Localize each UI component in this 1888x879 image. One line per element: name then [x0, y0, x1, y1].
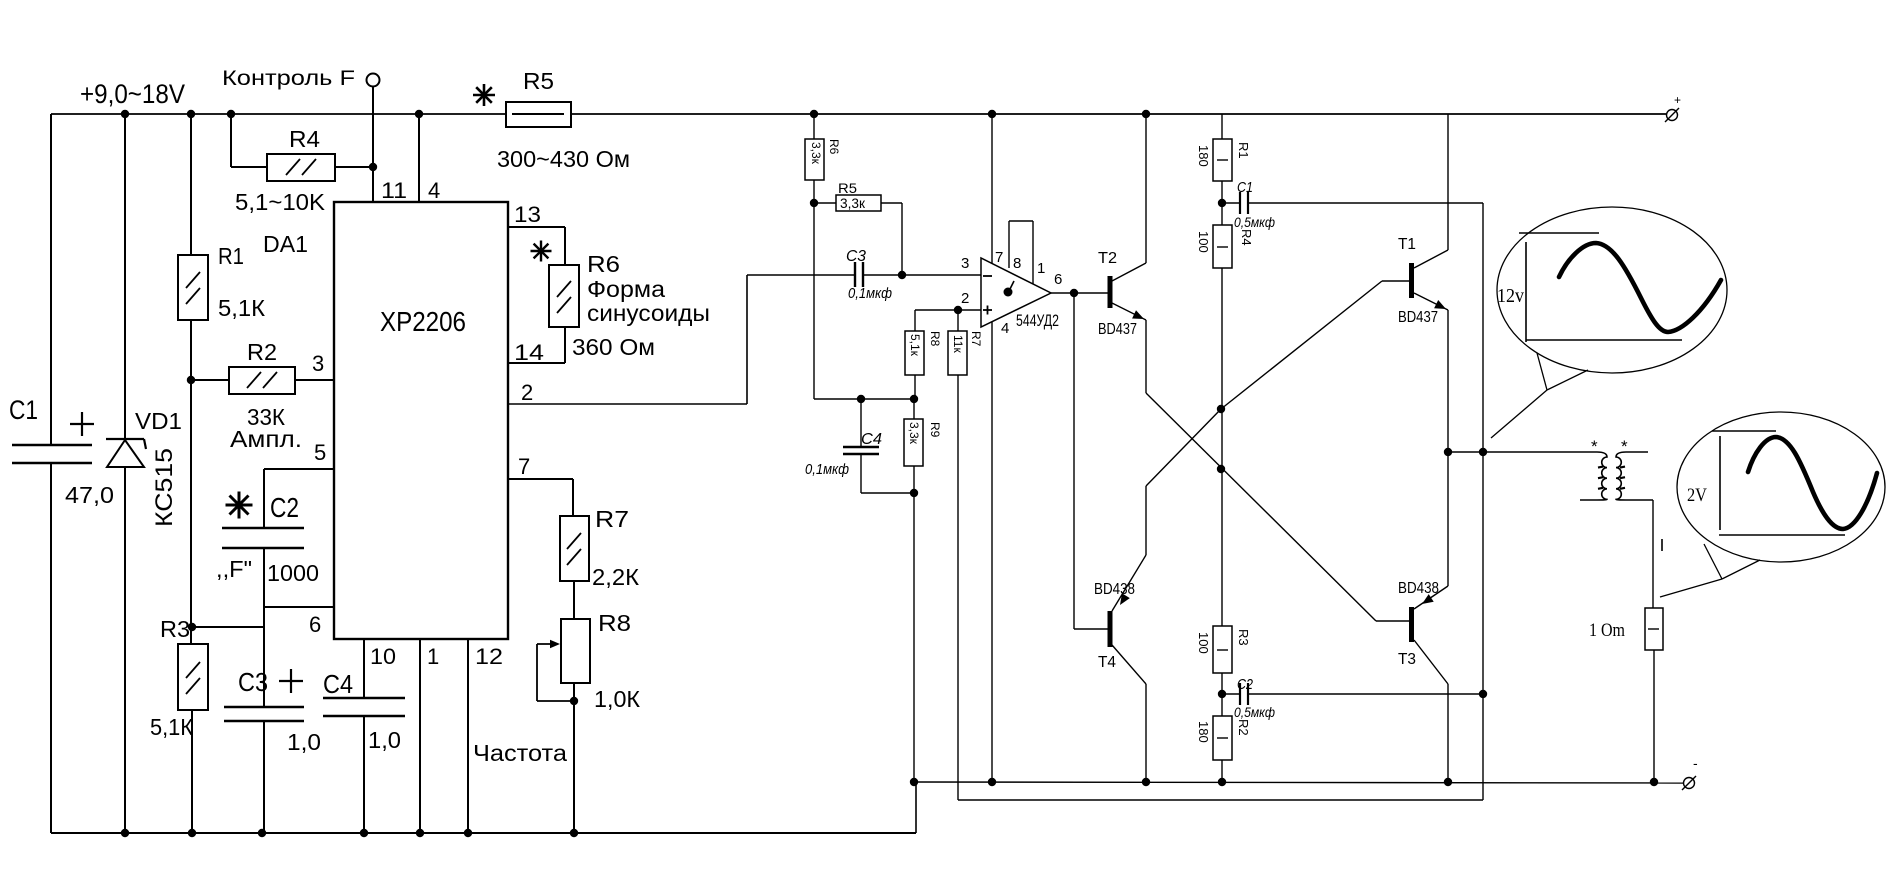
wire T4 base branch: [1074, 293, 1108, 629]
junction dot gnd/R2 ladder: [1218, 778, 1226, 786]
svg-text:8: 8: [1013, 255, 1021, 272]
svg-text:5,1~10K: 5,1~10K: [235, 189, 326, 215]
node label +9,0~18V: [80, 79, 185, 109]
svg-text:7: 7: [518, 454, 530, 479]
wire node399 horizontal: [814, 398, 914, 400]
svg-text:544УД2: 544УД2: [1016, 311, 1059, 330]
svg-text:1,0: 1,0: [287, 729, 321, 755]
junction dot R8 wiper: [570, 697, 578, 705]
junction dot ladder/T3-base diagonal: [1217, 465, 1225, 473]
capacitor C2 0,5mkf: [1222, 676, 1275, 720]
junction dot gnd/C3cap: [258, 829, 266, 837]
svg-text:R6: R6: [827, 139, 841, 155]
svg-text:12v: 12v: [1497, 285, 1524, 307]
wire R8b bottom lead: [914, 375, 916, 399]
wire R2 left lead: [191, 379, 229, 381]
pin 5 label: [314, 440, 326, 465]
svg-text:1,0: 1,0: [368, 727, 401, 753]
svg-text:300~430 Ом: 300~430 Ом: [497, 146, 630, 172]
svg-text:13: 13: [514, 202, 541, 227]
label Chastota: [473, 740, 567, 766]
junction dot gnd/load: [1650, 778, 1658, 786]
transformer TR1 primary winding: [1580, 452, 1607, 500]
resistor R6 3,3k vertical: [805, 114, 841, 180]
svg-text:T1: T1: [1398, 236, 1416, 253]
resistor R3 5,1K: [150, 616, 208, 740]
wire R7b feedback down: [957, 375, 959, 800]
wire C1 branch vertical: [50, 114, 52, 833]
asterisk for C2: [226, 492, 253, 519]
wire ladder top lead: [1221, 114, 1223, 139]
junction dot R3 top node: [188, 623, 196, 631]
pin 10 label: [370, 644, 396, 669]
junction dot power bus / pin4: [415, 110, 423, 118]
svg-text:7: 7: [995, 249, 1003, 266]
resistor R1 180: [1196, 139, 1251, 181]
pin 13 label: [514, 202, 541, 227]
svg-text:+9,0~18V: +9,0~18V: [80, 79, 185, 109]
wire R8 bottom lead: [573, 683, 575, 833]
pin 6 label: [309, 612, 321, 637]
capacitor C1: [9, 395, 114, 508]
svg-text:0,5мкф: 0,5мкф: [1234, 704, 1275, 720]
junction dot gnd/pin1: [416, 829, 424, 837]
junction dot gnd/VD1: [121, 829, 129, 837]
transistor T3 BD438: [1398, 580, 1448, 684]
svg-text:Форма: Форма: [587, 276, 665, 302]
resistor R2 180: [1196, 716, 1251, 760]
svg-text:0,1мкф: 0,1мкф: [848, 285, 892, 302]
op-amp pin 1 label: [1037, 260, 1045, 277]
junction dot output/T4 base branch: [1070, 289, 1078, 297]
junction dot power bus / T2 collector: [1142, 110, 1150, 118]
capacitor C4 0,1mkf: [805, 399, 882, 493]
junction dot gnd/T3 collector: [1444, 778, 1452, 786]
svg-text:C4: C4: [861, 431, 882, 448]
svg-text:BD438: BD438: [1094, 581, 1135, 598]
svg-text:R1: R1: [218, 243, 244, 269]
pin 14 label: [514, 340, 544, 365]
junction dot node399/R9: [910, 395, 918, 403]
wire ladder to T1 base diagonal: [1221, 281, 1409, 409]
pin 11 label: [381, 178, 407, 203]
svg-text:0,1мкф: 0,1мкф: [805, 461, 849, 478]
svg-text:+: +: [1674, 93, 1681, 107]
svg-text:100: 100: [1196, 231, 1211, 253]
junction dot C1 tap: [1218, 199, 1226, 207]
svg-text:BD438: BD438: [1398, 580, 1439, 597]
junction dot node399/C4: [857, 395, 865, 403]
wire T4 emitter up: [1145, 486, 1147, 555]
op-amp pin 4 label: [1001, 320, 1009, 337]
wire VD1 branch vertical: [124, 114, 126, 833]
svg-text:1: 1: [1037, 260, 1045, 277]
svg-text:DA1: DA1: [263, 231, 308, 257]
junction dot gnd/R9 node: [910, 778, 918, 786]
junction dot gnd/R8: [570, 829, 578, 837]
wire R3-R2 link: [1221, 673, 1223, 716]
pin 3 label: [312, 351, 324, 376]
svg-text:синусоиды: синусоиды: [587, 300, 710, 326]
wire R5b left lead: [814, 202, 836, 204]
svg-text:R3: R3: [1236, 629, 1251, 646]
svg-text:5,1к: 5,1к: [908, 334, 922, 357]
junction dot R7b tap: [954, 306, 962, 314]
junction dot R1/R2: [187, 376, 195, 384]
wire pin 14 lead: [508, 327, 565, 363]
wire pin 12 lead: [467, 639, 469, 833]
wire op-amp pin4 to ground: [991, 322, 993, 782]
resistor R2 33K Ampl.: [229, 339, 302, 452]
svg-text:4: 4: [1001, 320, 1009, 337]
wire pin 5 lead: [264, 469, 334, 528]
junction dot power bus / R6 3,3k: [810, 110, 818, 118]
svg-text:2,2К: 2,2К: [592, 564, 640, 590]
callout balloon 12v ellipse: [1491, 207, 1727, 438]
junction dot C4/R9 node: [910, 489, 918, 497]
junction dot power bus / op-amp pin7: [988, 110, 996, 118]
svg-text:VD1: VD1: [135, 408, 182, 434]
wire right rail vertical: [1482, 203, 1484, 800]
svg-text:12: 12: [475, 644, 503, 669]
transistor T1 BD437: [1398, 236, 1448, 326]
svg-text:C2: C2: [1237, 676, 1254, 693]
svg-text:XP2206: XP2206: [380, 306, 466, 337]
wire feedback bottom run: [958, 799, 1483, 801]
svg-text:R3: R3: [160, 616, 190, 642]
wire T3 collector to ground: [1447, 684, 1449, 782]
wire R5b right lead: [881, 203, 902, 275]
svg-text:C2: C2: [270, 492, 299, 523]
wire ground bus left: [51, 782, 916, 833]
junction dot output/right rail: [1479, 448, 1487, 456]
wire C2 to right rail: [1248, 693, 1481, 695]
resistor R4 100: [1196, 225, 1254, 268]
svg-text:R8: R8: [598, 610, 631, 636]
junction dot C2 tap: [1218, 690, 1226, 698]
resistor R4 5,1~10K: [235, 126, 335, 215]
op-amp pin 7 label: [995, 249, 1003, 266]
resistor R9 3,3k: [904, 399, 942, 466]
capacitor C2 1000 (F): [216, 492, 319, 586]
wire R6b bottom lead: [813, 180, 815, 399]
svg-text:R2: R2: [1236, 719, 1251, 736]
wire T3 emitter up to output: [1447, 452, 1449, 586]
svg-text:100: 100: [1196, 632, 1211, 654]
wire control terminal to pin 11: [372, 86, 374, 202]
svg-text:2: 2: [521, 380, 533, 405]
svg-text:R7: R7: [595, 506, 629, 532]
svg-text:C3: C3: [846, 248, 866, 265]
wire T4em to ladder node diagonal: [1146, 409, 1221, 486]
resistor R7 11k: [948, 310, 983, 375]
wire node to C3cap: [263, 627, 265, 707]
resistor R5 3,3k horizontal: [836, 181, 881, 211]
svg-text:R1: R1: [1236, 142, 1251, 159]
wire T2em to T3 base diagonal: [1146, 393, 1409, 621]
junction dot ladder/T1-base diagonal: [1217, 405, 1225, 413]
transformer polarity asterisks: [1591, 437, 1628, 456]
op-amp pin 2 label: [961, 290, 969, 307]
wire T2 collector to bus: [1145, 114, 1147, 263]
wire pin 2 to C3 (sine out): [508, 275, 855, 404]
svg-text:2V: 2V: [1687, 485, 1707, 506]
transistor T4 BD438: [1094, 555, 1146, 684]
wire R3 bottom lead: [191, 710, 193, 833]
wire R4 left lead: [231, 114, 267, 167]
svg-text:3,3к: 3,3к: [907, 422, 921, 445]
svg-text:T2: T2: [1098, 250, 1117, 267]
wire T1 emitter down: [1447, 310, 1449, 452]
junction dot gnd/R3: [188, 829, 196, 837]
svg-text:C4: C4: [323, 669, 353, 699]
wire op-amp pin7 supply: [991, 114, 993, 263]
label 12v: [1497, 285, 1524, 307]
svg-text:-: -: [1693, 755, 1698, 771]
scope axes 2V: [1712, 431, 1845, 535]
asterisk for R6: [531, 241, 552, 262]
junction dot gnd/op-amp pin4: [988, 778, 996, 786]
pin 7 label: [518, 454, 530, 479]
transformer TR1 secondary winding: [1598, 452, 1653, 500]
svg-text:10: 10: [370, 644, 396, 669]
svg-text:2: 2: [961, 290, 969, 307]
wire pin 1 lead: [419, 639, 421, 833]
svg-text:11к: 11к: [951, 335, 965, 353]
wire C3cap bottom lead: [263, 721, 265, 833]
svg-text:Частота: Частота: [473, 740, 567, 766]
svg-text:BD437: BD437: [1098, 321, 1137, 338]
sine wave 2V: [1748, 437, 1877, 529]
pin 12 label: [475, 644, 503, 669]
op-amp compensation pins 8-1 box: [1009, 221, 1033, 284]
wire C4cap bottom lead: [363, 716, 365, 833]
wire R4 right lead: [335, 166, 373, 168]
svg-text:180: 180: [1196, 721, 1211, 743]
wire plus input: [915, 309, 981, 311]
svg-text:R5: R5: [838, 181, 857, 196]
svg-text:R8: R8: [928, 331, 942, 347]
svg-text:Ампл.: Ампл.: [230, 426, 302, 452]
svg-text:T3: T3: [1398, 651, 1416, 668]
wire R1-R4 link: [1221, 181, 1223, 225]
wire R4 to R3: [1221, 268, 1223, 626]
svg-text:R5: R5: [523, 68, 554, 94]
svg-text:Контроль F: Контроль F: [222, 67, 355, 90]
wire node to R3: [192, 626, 264, 628]
terminal Kontrol F: [222, 67, 380, 90]
svg-text:R6: R6: [587, 251, 620, 277]
svg-text:R4: R4: [289, 126, 320, 152]
junction dot gnd/pin12: [464, 829, 472, 837]
capacitor C3 0,1mkf: [846, 248, 892, 302]
svg-text:47,0: 47,0: [65, 482, 114, 508]
svg-text:КС515: КС515: [151, 448, 178, 527]
svg-text:R4: R4: [1239, 229, 1254, 246]
wire pin 4 lead: [418, 114, 420, 202]
svg-text:3,3к: 3,3к: [840, 196, 865, 211]
junction dot power bus / C1: [121, 110, 129, 118]
wire R9 node to ground: [913, 493, 915, 782]
wire secondary to load: [1652, 500, 1654, 608]
wire T4 collector to ground: [1145, 684, 1147, 782]
wire R1 branch vertical: [190, 114, 192, 255]
callout balloon 2V ellipse: [1660, 412, 1885, 597]
resistor 1 Om load: [1589, 608, 1663, 650]
svg-text:C1: C1: [1237, 179, 1253, 196]
wire T2 emitter down: [1145, 320, 1147, 393]
stray tick mark: [1661, 539, 1663, 551]
junction dot gnd/pin10: [360, 829, 368, 837]
svg-text:,,F": ,,F": [216, 556, 252, 582]
wire C4-R9 bottom link: [861, 466, 914, 493]
wire pin 13 lead: [508, 227, 565, 265]
op-amp pin 3 label: [961, 255, 969, 272]
wire R1-R2 junction to R3: [190, 320, 192, 644]
svg-text:*: *: [1621, 437, 1628, 456]
svg-text:5,1К: 5,1К: [218, 295, 266, 321]
svg-text:1 Om: 1 Om: [1589, 620, 1625, 641]
resistor R3 100: [1196, 626, 1251, 673]
IC DA1 XP2206 body: [334, 202, 508, 639]
wire pin 10 lead: [363, 639, 365, 698]
wire C1 to right rail: [1248, 202, 1483, 204]
op-amp U1 544UD2: [981, 258, 1059, 330]
wire load to ground: [1653, 650, 1655, 782]
svg-text:C1: C1: [9, 395, 38, 425]
zener diode VD1 KC515: [106, 408, 182, 527]
svg-text:1: 1: [427, 644, 439, 669]
svg-text:3: 3: [312, 351, 324, 376]
wire T1 collector to bus: [1447, 114, 1449, 250]
svg-text:14: 14: [514, 340, 544, 365]
svg-text:R7: R7: [969, 331, 983, 347]
junction dot output node: [1444, 448, 1452, 456]
resistor R8 5,1k: [905, 310, 942, 375]
wire output node to transformer: [1448, 451, 1597, 453]
wire pin 7 lead: [508, 479, 573, 516]
svg-text:11: 11: [381, 178, 407, 203]
wire C3 out to op-amp minus input: [863, 274, 981, 276]
resistor R6 360 Om: [549, 251, 710, 360]
pin 1 label: [427, 644, 439, 669]
svg-text:360 Ом: 360 Ом: [572, 334, 655, 360]
junction dot R5b/C3 node: [898, 271, 906, 279]
svg-text:BD437: BD437: [1398, 309, 1438, 326]
transistor T2 BD437: [1098, 250, 1146, 338]
junction dot R6b/R5b: [810, 199, 818, 207]
svg-text:180: 180: [1196, 145, 1211, 167]
wire ground bus right: [916, 782, 1684, 783]
pin 2 label: [521, 380, 533, 405]
label DA1: [263, 231, 308, 257]
svg-text:C3: C3: [238, 667, 268, 697]
pin 4 label: [428, 178, 440, 203]
wire R7-R8 link: [573, 581, 575, 619]
op-amp pin 8 label: [1013, 255, 1021, 272]
svg-text:T4: T4: [1098, 654, 1116, 671]
wire R2 right lead to pin 3: [295, 379, 334, 381]
svg-text:3,3к: 3,3к: [809, 142, 823, 165]
resistor R7 2,2K: [560, 506, 640, 590]
svg-text:3: 3: [961, 255, 969, 272]
svg-text:0,5мкф: 0,5мкф: [1234, 214, 1275, 230]
svg-text:*: *: [1591, 437, 1598, 456]
wire R2 to ground: [1221, 760, 1223, 782]
junction dot power bus / R1 branch: [187, 110, 195, 118]
svg-text:5: 5: [314, 440, 326, 465]
svg-text:6: 6: [1054, 271, 1062, 288]
svg-text:R9: R9: [928, 422, 942, 438]
junction dot right rail/C2 wire: [1479, 690, 1487, 698]
wire pin 6 lead: [264, 606, 334, 608]
wire C2 bottom to node: [263, 548, 265, 627]
ballast resistor R5 300~430 Om: [497, 68, 630, 172]
svg-text:6: 6: [309, 612, 321, 637]
svg-text:1,0К: 1,0К: [594, 686, 641, 712]
wire +9..18V power bus (top): [51, 113, 1666, 115]
junction dot power bus / R4 branch: [227, 110, 235, 118]
resistor R1 5,1K: [178, 243, 266, 321]
asterisk for R5: [473, 84, 495, 106]
terminal output minus: [1682, 755, 1698, 790]
op-amp pin 6 label: [1054, 271, 1062, 288]
terminal output plus: [1665, 93, 1681, 122]
svg-text:4: 4: [428, 178, 440, 203]
junction dot R4 / control line: [369, 163, 377, 171]
svg-text:R2: R2: [247, 339, 277, 365]
capacitor C1 0,5mkf: [1222, 179, 1275, 230]
capacitor C3 1,0: [224, 667, 321, 755]
scope axes 12v: [1519, 233, 1682, 342]
capacitor C4 1,0: [323, 669, 405, 753]
potentiometer R8 1,0K: [537, 610, 641, 712]
wire op-amp output: [1051, 292, 1108, 294]
label 2V: [1687, 485, 1707, 506]
sine wave 12v: [1559, 243, 1721, 332]
junction dot gnd/T4 collector: [1142, 778, 1150, 786]
svg-text:5,1К: 5,1К: [150, 714, 194, 740]
svg-text:1000: 1000: [267, 560, 319, 586]
